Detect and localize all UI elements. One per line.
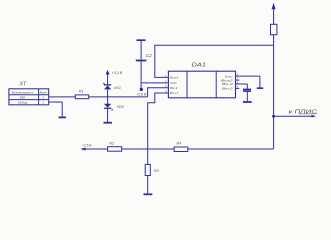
svg-text:Общ: Общ [18,101,28,105]
svg-text:к ПЛИС: к ПЛИС [289,109,318,115]
svg-text:Вх+2: Вх+2 [222,87,233,91]
svg-text:+2,5 В: +2,5 В [82,144,92,148]
svg-text:Вх-2: Вх-2 [222,82,234,86]
svg-text:R1: R1 [79,90,84,94]
svg-text:Вх+1: Вх+1 [170,91,179,95]
svg-text:VD1: VD1 [114,86,121,90]
svg-text:VD2: VD2 [117,105,124,109]
svg-text:+2,8 В: +2,8 В [136,93,147,97]
svg-text:Упр: Упр [170,81,177,85]
svg-text:+3,3 В: +3,3 В [112,71,123,75]
svg-text:5В: 5В [19,96,25,100]
svg-text:Контакт: Контакт [12,91,34,95]
svg-text:Кон: Кон [40,91,48,95]
svg-text:Вх-1: Вх-1 [170,86,178,90]
svg-text:2: 2 [41,101,44,105]
svg-text:C2: C2 [146,53,152,58]
svg-text:XT: XT [19,82,27,88]
svg-text:DA1: DA1 [192,62,207,68]
svg-text:Вых1: Вых1 [170,76,179,80]
svg-text:R4: R4 [176,142,181,146]
